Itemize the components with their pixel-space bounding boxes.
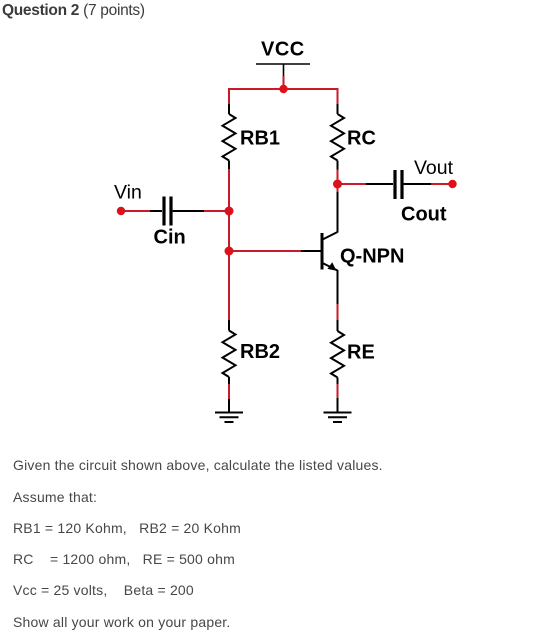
transistor Q-NPN bbox=[322, 192, 338, 304]
node base junction bbox=[225, 247, 234, 256]
wire top rail bbox=[229, 89, 338, 104]
resistor RC bbox=[331, 104, 344, 170]
svg-text:RB2: RB2 bbox=[240, 341, 280, 363]
wire Cin to node bbox=[204, 210, 229, 212]
node Cin junction bbox=[225, 207, 234, 216]
ground (RB2) bbox=[215, 399, 243, 422]
svg-text:RB1: RB1 bbox=[240, 128, 280, 150]
header: Question 2 (7 points) bbox=[2, 2, 145, 20]
wire emitter to RE bbox=[337, 304, 339, 320]
VCC power symbol bbox=[256, 64, 310, 76]
wire base node to transistor bbox=[229, 250, 301, 252]
svg-text:Q-NPN: Q-NPN bbox=[340, 246, 404, 268]
capacitor Cin bbox=[150, 197, 204, 226]
wire Cout to Vout terminal bbox=[431, 183, 453, 185]
resistor RE bbox=[331, 320, 344, 384]
svg-text:Vout: Vout bbox=[414, 157, 454, 179]
capacitor Cout bbox=[366, 170, 431, 199]
wire Vin to Cin bbox=[121, 210, 150, 212]
wire RB2 to ground bbox=[228, 384, 230, 399]
question text block bbox=[13, 457, 383, 473]
output terminal Vout bbox=[448, 180, 456, 188]
svg-text:VCC: VCC bbox=[261, 39, 305, 61]
input terminal Vin bbox=[117, 207, 125, 215]
resistor RB2 bbox=[223, 320, 236, 384]
wire RB1 to base node bbox=[228, 169, 230, 320]
node VCC rail junction bbox=[279, 85, 287, 93]
svg-text:RC: RC bbox=[347, 128, 376, 150]
node collector junction bbox=[333, 180, 342, 189]
svg-text:Cout: Cout bbox=[401, 204, 447, 226]
svg-text:Vin: Vin bbox=[114, 182, 142, 204]
resistor RB1 bbox=[223, 104, 236, 169]
wire collector node to Cout bbox=[338, 183, 367, 185]
svg-text:RE: RE bbox=[347, 342, 375, 364]
ground (RE) bbox=[324, 398, 352, 422]
wire RC to collector node bbox=[337, 170, 339, 193]
wire VCC pin to rail bbox=[283, 76, 285, 89]
svg-text:Cin: Cin bbox=[154, 227, 186, 249]
wire RE to ground bbox=[337, 384, 339, 398]
circuit schematic bbox=[0, 0, 544, 460]
